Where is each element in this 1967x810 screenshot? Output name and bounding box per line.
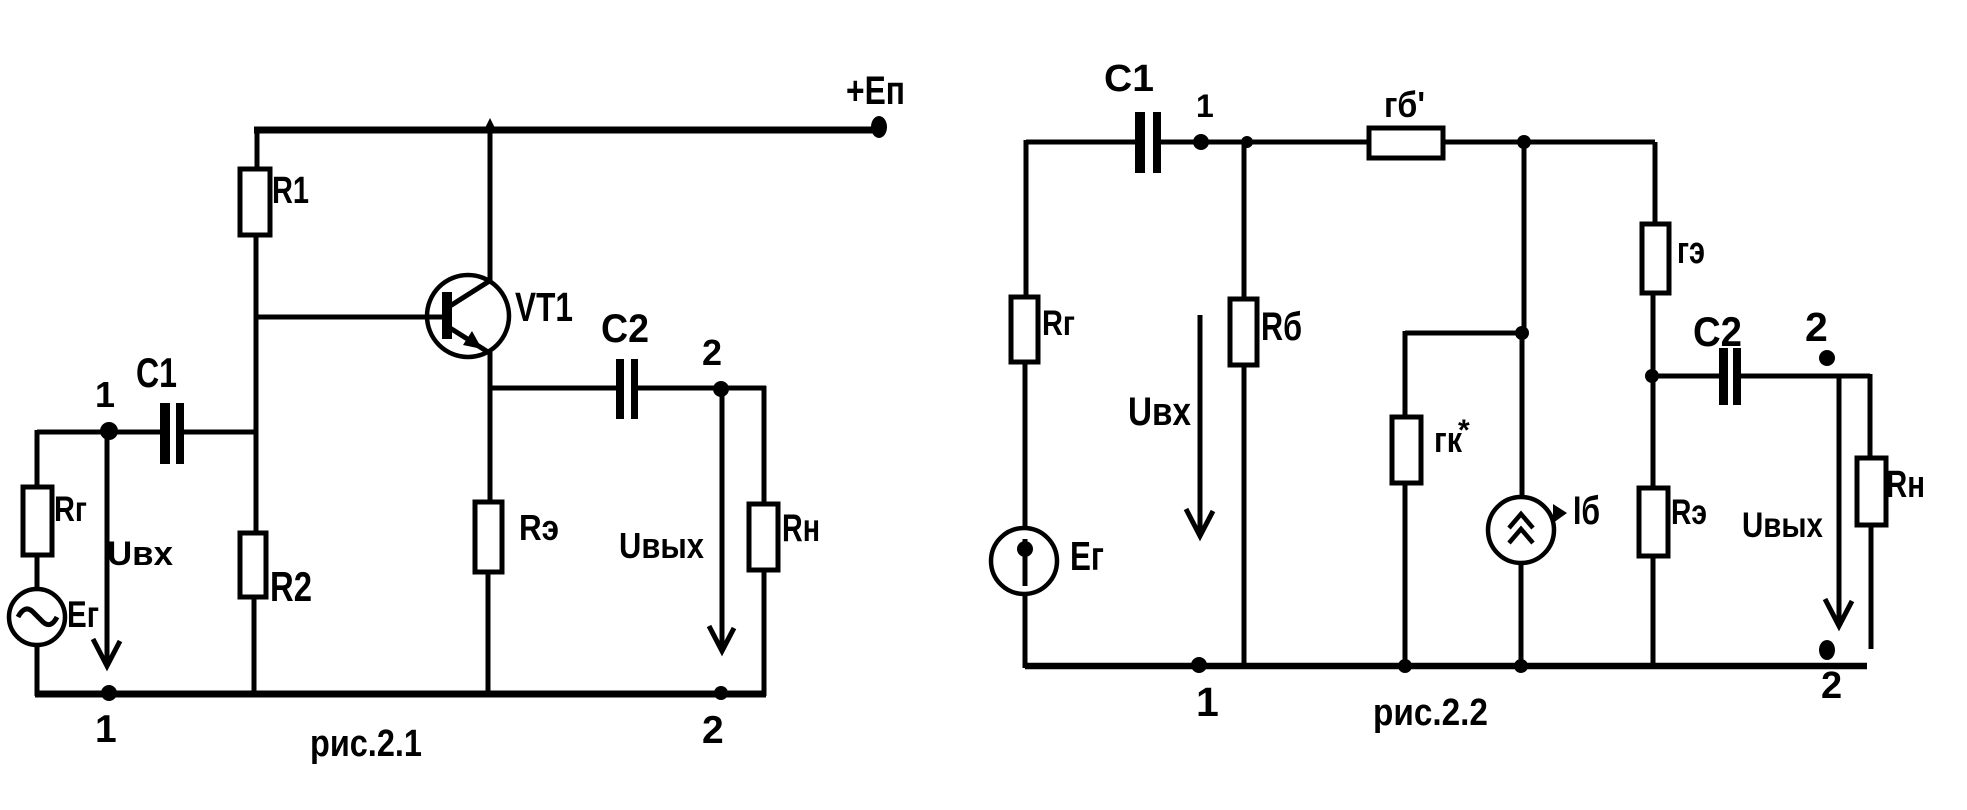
svg-text:*: * [1458, 414, 1470, 447]
wire top rail left fig2.2 [1026, 140, 1136, 145]
svg-text:2: 2 [702, 709, 724, 752]
node 2 top dot fig2.2 [1819, 350, 1835, 366]
resistor rk* [1392, 417, 1421, 483]
svg-text:2: 2 [702, 332, 722, 373]
resistor rb' horizontal [1369, 128, 1443, 158]
svg-text:Uвых: Uвых [619, 527, 704, 567]
svg-text:Rб: Rб [1261, 304, 1302, 349]
svg-text:C2: C2 [601, 307, 649, 351]
svg-text:Iб: Iб [1573, 488, 1600, 533]
svg-text:Ег: Ег [1070, 533, 1104, 579]
wire Rg to Eg fig2.2 [1023, 362, 1028, 529]
wire Re bottom [486, 572, 491, 696]
resistor Re fig2.2 [1639, 488, 1668, 556]
wire Eg bottom fig2.2 [1023, 594, 1028, 668]
wire rb' to re column [1443, 140, 1655, 145]
svg-text:+Еп: +Еп [846, 67, 905, 112]
current source bIb [1488, 497, 1554, 563]
arrow Uvh fig2.2 [1186, 315, 1213, 536]
wire top rail fig2.1 [254, 127, 876, 134]
wire Rg to Eg [35, 555, 40, 590]
wire Rn bottom fig2.2 [1869, 525, 1874, 649]
node junction on top rail [483, 118, 497, 132]
wire left column fig2.2 [1024, 140, 1029, 297]
resistor Rn fig2.2 [1857, 458, 1886, 525]
wire emitter node down to Re [1651, 378, 1656, 488]
wire R1 bottom / base column [254, 235, 259, 533]
svg-text:R2: R2 [270, 563, 312, 610]
wire R1 top [255, 127, 260, 169]
resistor Rg fig2.2 [1011, 297, 1038, 362]
arrow Uvyh fig2.1 [709, 392, 734, 651]
wire Rn bottom [762, 570, 767, 696]
svg-text:Rн: Rн [1886, 463, 1925, 505]
source Eg fig2.2 [991, 528, 1057, 594]
wire to current source [1520, 333, 1525, 498]
resistor Rg fig2.1 [23, 487, 52, 555]
wire re column top [1653, 142, 1658, 224]
svg-text:Rэ: Rэ [1671, 492, 1707, 532]
resistor Rn fig2.1 [749, 504, 778, 570]
wire R2 bottom [252, 597, 257, 696]
junction dot collector-rk node [1515, 326, 1529, 340]
resistor R2 [240, 533, 266, 597]
svg-text:Rг: Rг [54, 489, 87, 528]
capacitor C2 fig2.1 [616, 359, 638, 419]
arrow Uvh fig2.1 [93, 437, 120, 666]
wire Eg bottom [35, 645, 40, 696]
wire re bottom to junction [1651, 293, 1656, 378]
svg-text:Uвых: Uвых [1742, 506, 1823, 545]
svg-text:C2: C2 [1693, 308, 1742, 355]
svg-text:рис.2.1: рис.2.1 [310, 723, 422, 765]
svg-text:Rг: Rг [1042, 303, 1075, 342]
resistor Re fig2.1 [475, 502, 502, 572]
bottom rail fig2.2 [1025, 663, 1867, 670]
wire collector column [1522, 142, 1527, 333]
svg-text:гэ: гэ [1677, 229, 1705, 272]
wire rk top [1403, 331, 1408, 417]
node 1 top dot fig2.2 [1193, 134, 1209, 150]
svg-text:гб': гб' [1384, 85, 1425, 125]
capacitor C1 fig2.1 [160, 403, 184, 464]
source Eg fig2.1 [9, 589, 65, 645]
capacitor C2 fig2.2 [1719, 348, 1741, 405]
wire emitter down [488, 352, 493, 502]
wire C2 to node 2 [638, 386, 766, 391]
svg-text:VT1: VT1 [515, 284, 573, 330]
terminal +Ep [871, 116, 887, 138]
svg-text:Rн: Rн [782, 507, 820, 550]
bottom rail fig2.1 [35, 691, 766, 698]
wire emitter node to C2 [1653, 374, 1719, 379]
junction dot emitter node [1645, 369, 1659, 383]
wire left column top [35, 430, 40, 487]
svg-text:1: 1 [1196, 88, 1214, 124]
wire C1 row left [37, 430, 160, 435]
current source arrow glyph bIb [1553, 504, 1567, 523]
node 1 bottom dot [101, 685, 117, 701]
svg-text:2: 2 [1805, 304, 1828, 350]
node 1 top dot [100, 422, 118, 440]
svg-text:C1: C1 [1104, 57, 1154, 99]
wire rk bottom [1403, 483, 1408, 668]
capacitor C1 fig2.2 [1135, 112, 1161, 173]
svg-text:1: 1 [95, 374, 115, 415]
wire Rb bottom [1242, 365, 1247, 666]
resistor re fig2.2 [1642, 224, 1669, 293]
wire Rb column top [1242, 142, 1247, 299]
wire emitter to C2 [490, 386, 617, 391]
svg-text:1: 1 [95, 708, 117, 751]
svg-text:Rэ: Rэ [519, 508, 559, 549]
wire collector [488, 128, 493, 281]
node 1 bottom dot fig2.2 [1191, 657, 1207, 673]
resistor R1 [240, 169, 270, 235]
wire node2 to Rn [762, 386, 767, 504]
svg-text:Uвх: Uвх [1128, 389, 1191, 434]
svg-text:Ег: Ег [67, 595, 99, 636]
svg-text:R1: R1 [272, 169, 309, 212]
wire Rn column top fig2.2 [1868, 374, 1873, 458]
wire C2 to Rn column [1741, 374, 1870, 379]
wire C1 to rb' [1160, 140, 1369, 145]
arrow Uvyh fig2.2 [1825, 378, 1852, 626]
junction dot collector node top [1517, 135, 1531, 149]
svg-text:рис.2.2: рис.2.2 [1373, 691, 1488, 734]
junction dot rk bottom [1398, 659, 1412, 673]
wire C1 to base column [184, 430, 258, 435]
junction dot Rb top [1241, 136, 1253, 148]
resistor Rb [1230, 299, 1257, 365]
svg-text:Uвх: Uвх [107, 535, 173, 573]
svg-text:1: 1 [1196, 679, 1219, 725]
wire source bottom [1519, 563, 1524, 668]
node 2 bottom dot fig2.2 [1819, 640, 1835, 660]
transistor VT1 [427, 275, 509, 357]
svg-text:C1: C1 [136, 349, 177, 396]
wire Re bottom to rail fig2.2 [1651, 556, 1656, 668]
node 2 bottom dot [714, 686, 728, 700]
wire base [256, 315, 445, 320]
node 2 top dot [713, 381, 729, 397]
junction dot source bottom [1514, 659, 1528, 673]
wire horizontal rk branch [1405, 331, 1524, 336]
svg-text:2: 2 [1821, 665, 1842, 707]
